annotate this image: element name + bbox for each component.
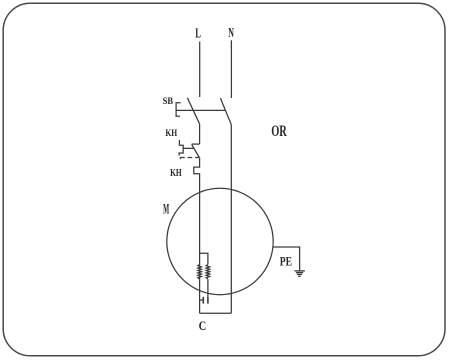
wire L lead <box>199 42 201 98</box>
main winding zigzag <box>198 265 202 279</box>
wire L pole below switch <box>199 124 201 144</box>
switch SB left blade <box>187 98 199 124</box>
switch SB right blade <box>220 98 231 124</box>
contact KH blade <box>192 145 200 158</box>
svg-text:KH: KH <box>170 168 182 179</box>
contact KH actuator hook <box>179 140 183 156</box>
svg-text:L: L <box>195 25 201 40</box>
capacitor C lead <box>200 299 204 301</box>
svg-text:KH: KH <box>165 129 177 139</box>
svg-text:PE: PE <box>280 254 292 269</box>
bottom connection wire <box>200 312 232 314</box>
contact KH trip tick <box>179 158 181 160</box>
ground symbol <box>295 271 305 276</box>
wire PE lead <box>273 247 299 270</box>
capacitor C left plate <box>202 297 204 304</box>
svg-text:SB: SB <box>163 97 174 107</box>
aux wire to capacitor <box>207 279 209 297</box>
heater KH element and L pole wire to bottom <box>194 158 200 314</box>
capacitor C right plate <box>207 297 209 304</box>
aux winding zigzag <box>206 265 210 279</box>
motor M circle <box>167 188 273 294</box>
switch SB linkage bar <box>176 109 225 111</box>
contact KH actuator link <box>183 147 194 149</box>
switch SB actuator bracket <box>176 103 181 116</box>
contact KH trip dashed line <box>180 157 199 159</box>
svg-text:N: N <box>228 25 234 40</box>
contact KH jog <box>192 143 200 145</box>
aux branch wire <box>200 253 208 264</box>
svg-text:M: M <box>163 201 169 217</box>
wire N lead <box>230 40 232 98</box>
wire N pole down to bottom <box>230 124 232 313</box>
svg-text:OR: OR <box>271 123 287 140</box>
svg-text:C: C <box>199 319 207 333</box>
